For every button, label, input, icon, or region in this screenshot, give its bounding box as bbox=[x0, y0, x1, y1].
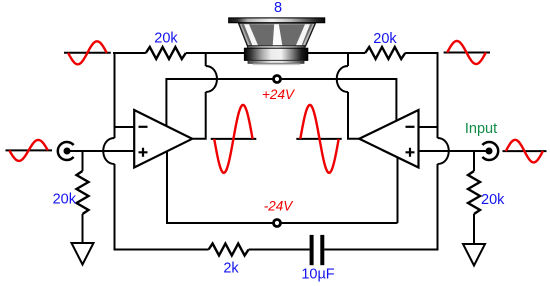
wire bottom right segment bbox=[324, 249, 438, 251]
top 20k R1 to speaker left terminal wire bbox=[186, 52, 245, 54]
waveform baseline left input bbox=[6, 149, 53, 151]
waveform baseline right output bbox=[296, 138, 341, 140]
wire right V- pin riser bbox=[397, 158, 399, 223]
node +24V bbox=[274, 76, 281, 83]
wire right feedback vertical upper bbox=[347, 52, 349, 66]
wire top-left horizontal (feedback/top rail left) bbox=[113, 52, 146, 54]
wire left 20k resistor top lead bbox=[82, 151, 84, 171]
waveform baseline top-right bbox=[444, 52, 490, 54]
resistor 20k right shunt bbox=[468, 171, 480, 214]
svg-text:10µF: 10µF bbox=[301, 267, 334, 283]
svg-text:+24V: +24V bbox=[262, 87, 296, 102]
wire left op-amp - input bbox=[115, 126, 135, 128]
ground left bbox=[72, 243, 94, 265]
wire bottom middle segment bbox=[249, 249, 310, 251]
wire left input (connector to op-amp +) bbox=[70, 150, 134, 152]
waveform sine left output bbox=[214, 105, 252, 173]
op-amp U2 (right) bbox=[359, 110, 418, 168]
wire left feedback vertical lower to op-amp output bbox=[192, 92, 206, 139]
node -24V bbox=[274, 220, 281, 227]
waveform baseline right input bbox=[503, 150, 547, 152]
wire right feedback vertical lower to op-amp output bbox=[348, 92, 359, 139]
wire bottom left segment bbox=[114, 249, 209, 251]
resistor 20k top-left bbox=[146, 47, 186, 59]
wire hop left outer over + input wire bbox=[103, 138, 114, 164]
waveform baseline top-left bbox=[64, 52, 111, 54]
svg-text:20k: 20k bbox=[154, 31, 178, 47]
wire left outer vertical lower bbox=[114, 164, 116, 251]
waveform sine right input bbox=[506, 140, 543, 163]
wire hop left feedback over +24V rail bbox=[206, 66, 217, 92]
wire hop right feedback over +24V rail bbox=[337, 66, 348, 92]
waveform sine top-right bbox=[447, 41, 486, 64]
svg-text:-24V: -24V bbox=[264, 199, 295, 214]
wire right V+ pin drop bbox=[395, 78, 397, 121]
speaker LS1 (8 ohm) bbox=[229, 18, 325, 65]
svg-text:20k: 20k bbox=[373, 31, 397, 47]
+24V rail wire bbox=[166, 78, 396, 80]
wire right op-amp - input bbox=[419, 126, 438, 128]
connector right (Input jack) bbox=[482, 142, 498, 160]
wire right outer vertical lower bbox=[437, 164, 439, 251]
wire right input (op-amp + to connector) bbox=[419, 150, 487, 152]
waveform baseline left output bbox=[211, 138, 257, 140]
resistor 20k top-right bbox=[365, 47, 405, 59]
wire left V- pin drop bbox=[167, 152, 398, 223]
svg-text:20k: 20k bbox=[481, 192, 505, 208]
svg-text:2k: 2k bbox=[223, 261, 239, 277]
waveform sine left input bbox=[9, 140, 48, 161]
wire right 20k resistor bottom lead to ground bbox=[473, 214, 475, 244]
ground right bbox=[463, 244, 485, 266]
wire left 20k resistor bottom lead to ground bbox=[82, 214, 84, 243]
svg-text:8: 8 bbox=[274, 0, 282, 16]
wire left V+ pin drop bbox=[165, 78, 167, 126]
svg-text:20k: 20k bbox=[53, 192, 77, 208]
svg-text:Input: Input bbox=[465, 121, 497, 137]
wire left outer vertical upper bbox=[114, 52, 116, 138]
wire right outer vertical upper bbox=[437, 52, 439, 138]
waveform sine top-left bbox=[68, 41, 107, 64]
resistor 2k bottom bbox=[209, 244, 249, 256]
wire speaker right terminal to right side bbox=[308, 52, 366, 54]
capacitor 10uF plates bbox=[310, 235, 314, 265]
op-amp U1 (left) bbox=[134, 110, 192, 168]
waveform sine right output bbox=[300, 105, 338, 173]
wire hop right outer over input wire bbox=[438, 138, 449, 164]
connector left (jack) bbox=[58, 142, 74, 160]
wire left feedback vertical upper bbox=[205, 52, 207, 66]
wire top-right resistor to outer vertical corner bbox=[405, 52, 437, 54]
resistor 20k left shunt bbox=[77, 171, 89, 214]
wire right 20k resistor top lead bbox=[473, 151, 475, 171]
